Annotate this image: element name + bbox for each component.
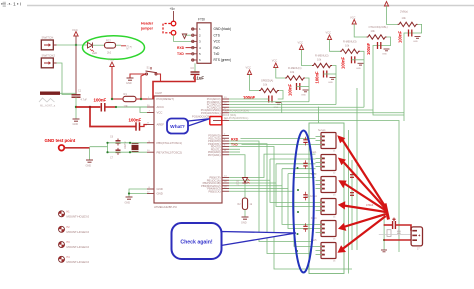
wire N4 cap	[352, 59, 365, 61]
network N4 : R-MENU(3)	[326, 31, 365, 108]
top toolbar line	[27, 5, 474, 7]
svg-text:What?: What?	[170, 124, 185, 130]
svg-text:SDA/PC4(ADC4/SDA): SDA/PC4(ADC4/SDA)	[224, 109, 249, 112]
capacitor C2 100nF	[101, 103, 105, 112]
wire R22 to pad	[116, 44, 122, 46]
red arrow 5	[338, 214, 386, 231]
capacitor C7	[116, 148, 121, 155]
junction rail B	[383, 239, 385, 241]
svg-text:10k: 10k	[371, 29, 376, 33]
header jumper dashed bracket	[163, 24, 171, 33]
svg-text:10k: 10k	[402, 16, 407, 20]
svg-text:PC5(ADC5/SCL): PC5(ADC5/SCL)	[201, 111, 221, 115]
capacitor C11	[303, 160, 307, 169]
wire PC3 net	[229, 106, 364, 108]
wire N4 node	[360, 51, 364, 107]
resonator bar	[40, 92, 60, 95]
svg-text:2k2: 2k2	[107, 51, 112, 55]
svg-text:10k: 10k	[124, 104, 129, 108]
wire VCC2 down to R1 node	[111, 67, 113, 100]
svg-text:GND: GND	[413, 41, 418, 43]
connector FTDI body	[197, 23, 211, 64]
svg-text:Servo1: Servo1	[318, 129, 326, 132]
svg-text:VCC: VCC	[108, 58, 114, 62]
resistor R1	[123, 96, 136, 101]
red arrow 2	[338, 158, 386, 210]
svg-text:OTACON(2CBL): OTACON(2CBL)	[369, 25, 388, 29]
svg-text:RXD: RXD	[177, 46, 185, 50]
ground S1	[127, 78, 134, 80]
resistor N6	[398, 22, 418, 26]
svg-text:SWITCH: SWITCH	[42, 36, 54, 40]
ground rail B	[381, 250, 387, 252]
wire PC1 net	[229, 101, 309, 103]
connector J5	[316, 221, 337, 241]
wire XTAL2 row	[108, 151, 148, 153]
wire C1 down	[75, 97, 77, 119]
connector J7	[411, 227, 422, 251]
svg-text:S1: S1	[147, 66, 151, 70]
wire PB3 net	[229, 169, 316, 225]
wire rail B	[383, 205, 385, 250]
wire N2 node	[305, 78, 309, 102]
IC U1 left pin stubs	[147, 99, 154, 194]
ground N4	[358, 63, 364, 65]
resistor N2	[285, 76, 305, 80]
wire LED2 to R2	[244, 184, 246, 199]
svg-text:GND: GND	[328, 82, 333, 84]
svg-text:MOUNT-HOLE3.0: MOUNT-HOLE3.0	[67, 260, 90, 264]
long vertical right	[356, 88, 358, 250]
VCC symbol below ellipse	[108, 58, 114, 67]
wire switch S3 to bottom bus	[57, 63, 77, 95]
wire C2 to AVCC	[105, 106, 116, 108]
ground arrow CTS	[182, 34, 186, 39]
wire VCC to R1	[112, 98, 123, 100]
wire N3 vcc stem	[302, 50, 313, 66]
svg-text:LED2: LED2	[237, 179, 240, 186]
resistor R22	[105, 43, 116, 49]
wire PB4 net	[229, 174, 316, 229]
red power bus horizontal	[76, 106, 100, 108]
junction caps left bottom	[106, 151, 108, 153]
svg-text:VCC: VCC	[350, 16, 356, 20]
branch down of power bus	[90, 107, 136, 127]
capacitor N1	[269, 96, 272, 103]
svg-text:VCC: VCC	[326, 31, 332, 35]
svg-text:GND: GND	[157, 192, 163, 196]
wire C5 to AREF	[140, 125, 148, 127]
wire CTS to ground arrow	[185, 34, 192, 36]
FTDI pin stubs	[191, 29, 197, 60]
svg-text:2V8(a): 2V8(a)	[400, 10, 408, 14]
capacitor C10	[303, 137, 307, 146]
jumper pad bottom	[171, 31, 176, 36]
wire N4 vcc stem	[330, 40, 341, 52]
network N2 : R-MENU(1)	[272, 59, 309, 102]
wire PB5 net	[229, 177, 316, 246]
junction R1 left	[111, 98, 113, 100]
svg-text:GND: GND	[241, 222, 247, 225]
resistor N3	[312, 63, 332, 67]
svg-text:VCC: VCC	[246, 66, 252, 70]
capacitor C6	[116, 139, 121, 146]
ground N6	[415, 37, 421, 39]
wire PC0 net	[229, 98, 264, 100]
svg-text:VCC: VCC	[298, 41, 304, 45]
junction C1 node	[75, 106, 77, 108]
svg-text:GND: GND	[301, 95, 306, 97]
switch S2 stub	[53, 44, 56, 46]
svg-text:SCL/PC5(ADC5/SCL): SCL/PC5(ADC5/SCL)	[224, 117, 248, 120]
svg-text:100nF: 100nF	[366, 42, 371, 55]
switch S3 stub	[53, 62, 56, 64]
svg-text:SWITCH2: SWITCH2	[42, 54, 56, 58]
wire PB2 net	[229, 164, 316, 207]
svg-text:4.7uF: 4.7uF	[81, 99, 88, 102]
wire caps gnd vertical	[107, 143, 109, 152]
mount hole H1	[59, 210, 90, 218]
svg-text:VCC: VCC	[272, 59, 278, 63]
resistor N1	[259, 88, 279, 92]
junction crystal top	[129, 142, 131, 144]
wire PD3 net	[229, 144, 311, 254]
svg-text:R-MENU(1): R-MENU(1)	[288, 66, 302, 70]
svg-text:PC6(/RESET): PC6(/RESET)	[157, 97, 174, 101]
svg-text:VCC: VCC	[214, 40, 221, 44]
svg-text:PB6(XTAL1/TOSC1): PB6(XTAL1/TOSC1)	[157, 141, 183, 145]
svg-text:AREF: AREF	[157, 123, 165, 127]
svg-text:100nF: 100nF	[341, 56, 346, 69]
wire AVCC to VCC pin	[140, 107, 147, 113]
svg-text:CTS: CTS	[214, 33, 220, 37]
junction R1 right	[140, 98, 142, 100]
wire PB0 net	[229, 154, 316, 177]
wire PC4 SDA net	[229, 109, 373, 111]
junction gnd pins	[128, 192, 130, 194]
capacitor C15	[350, 193, 354, 196]
frame rect	[309, 123, 344, 274]
wire TXD to pin5	[186, 53, 192, 55]
svg-text:100nF: 100nF	[94, 98, 107, 103]
red feed top	[384, 224, 392, 226]
wire LED to R22	[93, 44, 105, 46]
capacitor C1 4.7uF	[72, 95, 81, 97]
mount hole H3	[59, 241, 90, 249]
What? highlight box	[210, 117, 222, 125]
ground below C1	[73, 119, 80, 121]
resistor N5	[367, 35, 387, 39]
VCC N6	[384, 2, 388, 7]
ground N3	[330, 78, 336, 80]
svg-text:100nF: 100nF	[288, 83, 293, 96]
junction switch node	[75, 44, 77, 46]
LED D2	[242, 178, 249, 184]
test pad TP1	[59, 145, 65, 151]
wire FTDI gnd to C3	[194, 63, 196, 72]
resistor N4	[340, 49, 360, 53]
wire C16 to J7	[395, 225, 411, 231]
svg-text:TxD: TxD	[214, 52, 221, 56]
wire TXD net	[242, 143, 316, 145]
svg-text:MOUNT-HOLE3.0: MOUNT-HOLE3.0	[67, 245, 90, 249]
capacitor C13	[303, 223, 307, 232]
wire TP1 to ground	[65, 147, 90, 149]
svg-text:ML_AONT_a: ML_AONT_a	[40, 104, 56, 108]
svg-text:VCC: VCC	[72, 28, 78, 32]
capacitor C3	[191, 72, 200, 74]
ground LED2	[242, 217, 249, 219]
svg-text:R-MENU(3): R-MENU(3)	[343, 40, 357, 44]
small component C17	[397, 229, 401, 237]
wire PC2 net	[229, 104, 336, 106]
svg-text:10k: 10k	[290, 70, 295, 74]
wire N6 vcc stem	[387, 6, 398, 24]
capacitor N3	[324, 71, 327, 78]
reset switch S1	[146, 67, 158, 75]
ground N1	[276, 103, 282, 105]
svg-text:Header: Header	[141, 22, 154, 26]
IC U1 right pin names	[192, 97, 221, 193]
What? bubble tail	[188, 119, 210, 126]
svg-text:R-MENU(2): R-MENU(2)	[315, 54, 329, 58]
network N3 : R-MENU(2)	[298, 41, 337, 105]
wire RXD to pin4	[186, 47, 192, 49]
svg-text:100nF: 100nF	[398, 30, 403, 43]
ground N5	[384, 49, 390, 51]
connector J6	[316, 243, 337, 263]
wire frame feed vertical	[317, 107, 319, 123]
wire N3 cap	[324, 73, 337, 75]
wire PD2 net	[229, 141, 311, 242]
red arrow 4	[338, 201, 386, 212]
wire N1 cap left	[264, 98, 269, 100]
svg-text:100nF: 100nF	[315, 71, 320, 84]
small component D3	[387, 230, 391, 237]
FTDI pin labels	[214, 27, 232, 62]
wire bar to node	[60, 92, 76, 94]
red arrow 3	[338, 180, 386, 210]
svg-text:jumper: jumper	[140, 27, 154, 31]
pad JP1	[121, 44, 133, 49]
junction dots on rail	[296, 145, 299, 252]
capacitor C5 100nF	[136, 122, 140, 130]
wire N5 node	[373, 37, 404, 115]
network N6 : 2V8	[384, 2, 421, 122]
svg-text:SPEED(A): SPEED(A)	[261, 79, 273, 83]
svg-text:GND: GND	[73, 123, 79, 126]
connector J1	[316, 133, 337, 153]
red arrow 6	[338, 216, 386, 253]
VCC symbol top-left	[72, 28, 78, 36]
svg-text:TXD: TXD	[177, 52, 184, 56]
wire jumper to VCC pin	[174, 35, 192, 41]
wire S1 left to ground	[130, 74, 146, 78]
svg-text:470uF: 470uF	[366, 203, 374, 207]
svg-text:ATMEGA328P-PU: ATMEGA328P-PU	[154, 205, 177, 209]
capacitor N5	[378, 42, 381, 49]
mount hole H2	[59, 226, 90, 234]
ground N2	[303, 90, 309, 92]
red arrow origin	[385, 204, 389, 220]
svg-text:RTS (green): RTS (green)	[214, 58, 231, 62]
capacitor N2	[297, 83, 300, 90]
svg-text:GND: GND	[382, 54, 387, 56]
svg-text:100nF: 100nF	[129, 118, 142, 123]
svg-text:PD7(AIN1): PD7(AIN1)	[208, 153, 221, 157]
wire IC gnd pins join	[129, 189, 147, 197]
ground TP1	[86, 160, 93, 162]
svg-text:PB7(XTAL2/TOSC2): PB7(XTAL2/TOSC2)	[157, 150, 183, 154]
svg-text:LED: LED	[92, 51, 97, 55]
ground IC	[126, 197, 133, 199]
svg-text:GND (black): GND (black)	[214, 27, 232, 31]
wire R1 to RESET pin	[136, 98, 147, 100]
red power bus from C3	[153, 74, 195, 99]
frame inner vertical	[348, 130, 350, 274]
wire N2 cap	[297, 86, 310, 88]
red feed bottom	[384, 239, 411, 241]
wire N3 node	[332, 66, 336, 105]
wire N5 vcc stem	[354, 24, 366, 37]
resistor R2	[242, 198, 247, 210]
svg-text:RxD: RxD	[214, 46, 221, 50]
Check again! bubble tail	[221, 232, 296, 246]
IC U1 body	[154, 96, 222, 203]
IC U1 left pin names	[157, 97, 183, 196]
svg-text:VCC: VCC	[157, 111, 163, 115]
svg-text:PB5(SCK): PB5(SCK)	[209, 189, 221, 193]
wire N6 node	[404, 24, 422, 121]
LED D1	[88, 43, 95, 52]
blue ellipse	[293, 131, 314, 273]
junction caps left top	[106, 142, 108, 144]
+5v pad top	[171, 11, 176, 26]
IC U1 right pin numbers	[224, 97, 227, 189]
svg-text:GND: GND	[125, 202, 131, 205]
mount hole H4	[59, 256, 90, 264]
wire N1 node	[278, 91, 283, 100]
svg-text:Check again!: Check again!	[180, 240, 213, 246]
thin gray rail	[379, 234, 411, 236]
wire PC5 SCL net	[229, 112, 404, 114]
wire TP join crystal	[90, 147, 108, 160]
svg-text:R22: R22	[106, 39, 111, 43]
switch S2	[41, 40, 53, 50]
svg-text:GND: GND	[157, 187, 163, 191]
wire PD5 stub	[229, 148, 240, 150]
wire PD6 stub	[229, 151, 240, 153]
wire PB1 net	[229, 159, 316, 202]
IC U1 right pin stubs PC	[213, 99, 229, 191]
wire reset vertical	[141, 74, 146, 99]
svg-text:10k: 10k	[317, 58, 322, 62]
switch S3	[41, 58, 53, 68]
capacitor C12	[303, 192, 307, 201]
svg-text:GND test point: GND test point	[45, 138, 76, 143]
svg-text:GND: GND	[126, 82, 132, 85]
svg-text:R1: R1	[124, 92, 128, 96]
svg-text:PC6(ADC6/CB0): PC6(ADC6/CB0)	[192, 115, 212, 119]
wire PD7 to LED2	[229, 155, 245, 177]
wire switch S2 to LED	[57, 44, 88, 46]
wire S1 right to reset node	[157, 74, 161, 82]
svg-text:AVCC: AVCC	[157, 105, 165, 109]
capacitor N6	[409, 30, 412, 37]
svg-text:ADC6 (W/A): ADC6 (W/A)	[223, 114, 237, 117]
svg-text:GND: GND	[356, 68, 361, 70]
network N5 : OTACON	[350, 16, 404, 116]
green annotation ellipse	[83, 36, 145, 60]
wire RXD net	[241, 138, 316, 140]
wire rail A	[351, 160, 353, 250]
svg-text:FTDI: FTDI	[198, 18, 205, 22]
network N1 : SPEED(A)	[243, 66, 283, 110]
svg-text:GND: GND	[86, 165, 92, 168]
red arrow 1	[337, 135, 386, 207]
svg-text:MOUNT-HOLE3.0: MOUNT-HOLE3.0	[67, 214, 90, 218]
Check again! bubble	[172, 223, 222, 259]
What? bubble	[167, 119, 188, 134]
capacitor C16 polarized	[392, 218, 395, 229]
wire N1 vcc stem	[250, 75, 260, 91]
connector J2	[316, 155, 337, 175]
svg-text:10k: 10k	[263, 83, 268, 87]
wire ADC6 net	[229, 121, 399, 253]
wire R2 to gnd	[244, 210, 246, 218]
svg-text:10k: 10k	[345, 44, 350, 48]
wire PD4 net	[229, 147, 352, 270]
capacitor C14	[350, 175, 354, 178]
FTDI pin pads	[192, 28, 194, 61]
svg-text:MOUNT-HOLE3.0: MOUNT-HOLE3.0	[67, 230, 90, 234]
svg-text:TXD: TXD	[231, 142, 238, 146]
FTDI pin numbers	[199, 27, 201, 62]
wire VCC vertical	[75, 36, 77, 95]
capacitor N4	[352, 56, 355, 63]
svg-text:CHIP: CHIP	[155, 91, 162, 95]
wire N2 vcc stem	[276, 68, 285, 79]
crystal Q1	[132, 143, 139, 152]
IC U1 left pin numbers	[147, 97, 151, 194]
connector J3	[316, 177, 337, 197]
connector J4	[316, 199, 337, 219]
svg-text:+5v: +5v	[170, 7, 176, 11]
wire XTAL1 row	[108, 142, 148, 144]
junction crystal bottom	[129, 151, 131, 153]
svg-text:16MHz: 16MHz	[124, 141, 127, 149]
resonator squiggle	[39, 98, 55, 102]
wire N1 gnd drop	[281, 103, 283, 113]
